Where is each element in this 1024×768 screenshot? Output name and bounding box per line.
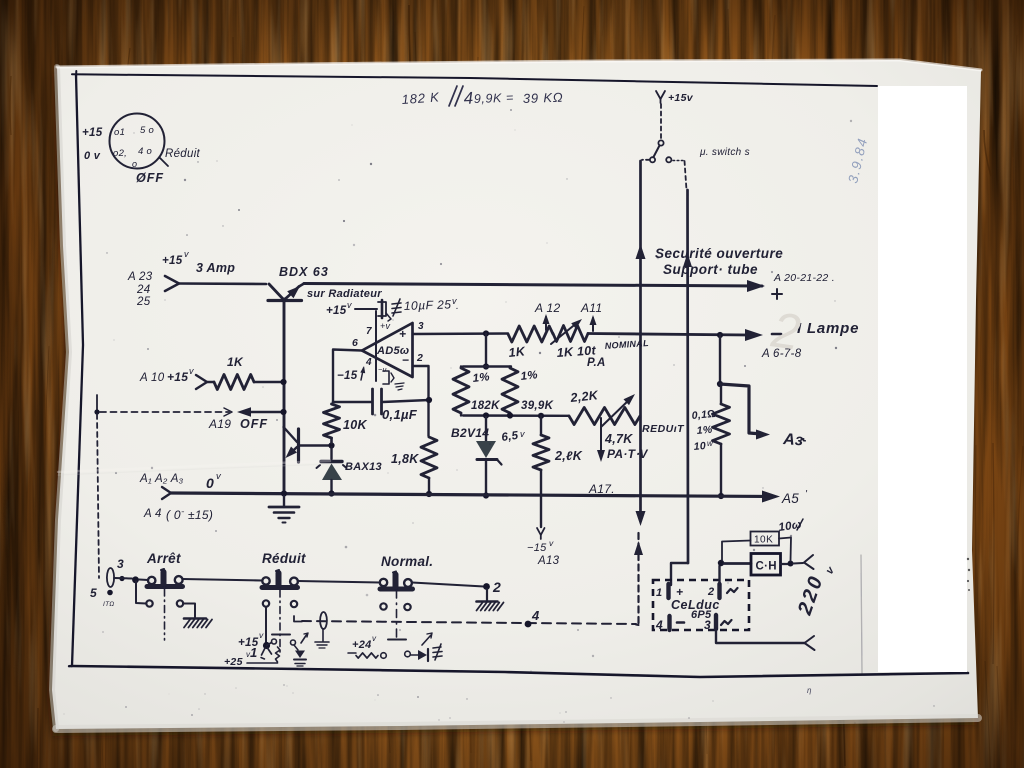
svg-text:2: 2 (492, 579, 501, 595)
svg-text:Réduit: Réduit (262, 551, 306, 566)
svg-text:A13: A13 (537, 555, 560, 567)
wire lamp to Arret switch (114, 577, 132, 580)
svg-text:o: o (132, 159, 137, 169)
svg-text:μ. switch s: μ. switch s (699, 147, 750, 158)
switch SW-Arret lower contacts (146, 600, 183, 606)
label p. switch 1 (699, 147, 750, 158)
svg-text:A17.: A17. (588, 482, 615, 496)
svg-text:o1: o1 (114, 127, 125, 138)
junction dot D2 / 0V rail (483, 492, 489, 498)
capacitor C2 0,1uF (333, 389, 429, 414)
svg-text:1%: 1% (472, 371, 490, 385)
wire divider tap down (483, 334, 489, 370)
svg-text:+25: +25 (224, 656, 243, 668)
label Reduit switch (262, 551, 306, 566)
switch SW-Normal lower contacts (380, 603, 410, 610)
svg-text:2: 2 (416, 352, 423, 364)
wire vertical net V1 from switch S1 (641, 160, 650, 517)
svg-text:v: v (347, 300, 352, 310)
svg-text:o2,: o2, (113, 148, 127, 159)
node A10 +15V (139, 366, 194, 384)
svg-text:v: v (184, 249, 189, 259)
wire 0V rail A5 (171, 493, 771, 497)
wire U1 pin6 output feedback (333, 350, 362, 403)
node label A13 (537, 555, 560, 567)
svg-text:+15: +15 (162, 255, 183, 267)
wire divider bottom rail (463, 414, 569, 417)
svg-text:4: 4 (655, 618, 663, 632)
ground at node 2 (477, 589, 504, 611)
svg-text:1,8K: 1,8K (391, 452, 419, 466)
svg-text:A 20-21-22 .: A 20-21-22 . (773, 272, 835, 284)
label Celduc (671, 598, 720, 612)
svg-text:+: + (399, 327, 406, 341)
svg-text:±15): ±15) (188, 508, 213, 522)
svg-text:39 KΩ: 39 KΩ (523, 90, 564, 106)
wire Arret to Reduit (183, 579, 263, 581)
terminal 1 of K1 (656, 584, 683, 599)
svg-text:4,7K: 4,7K (604, 432, 633, 446)
terminal 4 of K1 (655, 616, 684, 632)
label 6P5 (691, 609, 712, 621)
solid state relay K1 Celduc box (653, 580, 749, 630)
svg-text:BAX13: BAX13 (345, 461, 382, 473)
label node 4 (531, 608, 540, 623)
label 3 at lamp (117, 557, 124, 571)
label A4 (0V +/-15) (143, 503, 213, 522)
wiper diagonal arrow R9 (601, 394, 635, 427)
svg-text:10: 10 (693, 440, 706, 453)
wire +25V (224, 650, 278, 668)
lamp oval on node 4 line (320, 612, 327, 629)
wire C1 down through U1 pin 7 to pin 4 (375, 311, 377, 381)
svg-text:+v: +v (380, 321, 391, 331)
formula annotation 182K parallel 49,9K (401, 86, 564, 108)
wire U1 minus input from R3 node (413, 366, 429, 436)
label 0V at J1 (84, 150, 101, 162)
wire terminal 2 up (718, 566, 720, 584)
svg-text:1%: 1% (696, 424, 713, 437)
junction dot R1 / emitter rail (280, 379, 286, 385)
wire dashed from +15V to switch S1 (660, 104, 662, 139)
svg-text:Réduit: Réduit (165, 148, 201, 160)
wire Normal to node 2 (412, 583, 484, 587)
ground under lamp oval (315, 630, 329, 649)
svg-text:1K: 1K (227, 355, 244, 369)
wire Reduit lower left down (265, 607, 267, 642)
dash-dot under Reduit stem (279, 590, 281, 652)
svg-text:24: 24 (136, 284, 150, 296)
svg-text:0,1Ω: 0,1Ω (691, 408, 716, 422)
potentiometer R7 1K (508, 326, 553, 342)
junction dot A19 / collector (280, 409, 286, 415)
label 1% (R4) (472, 371, 490, 385)
svg-text:−ν: −ν (378, 365, 387, 374)
small arrowhead on A19 dashes (224, 408, 232, 416)
svg-text:−: − (402, 353, 409, 367)
arrowhead up on net V1 (636, 244, 646, 259)
switch S1 left contact (650, 157, 655, 162)
wire Reduit to Normal (298, 581, 381, 583)
label -15 at pin4 (337, 366, 365, 382)
svg-text:0: 0 (206, 475, 214, 491)
dash-dot line node 4 (302, 621, 636, 624)
svg-text:−15: −15 (527, 542, 547, 554)
dash-dot under Arret stem (164, 589, 166, 640)
wiper arrow A11 (590, 315, 597, 331)
svg-text:9,9K =: 9,9K = (474, 91, 515, 106)
svg-text:PA·T⋅V: PA·T⋅V (607, 447, 648, 461)
wiper arrow A12 (543, 314, 550, 330)
wire 10K left leg (722, 541, 751, 561)
svg-text:A 4: A 4 (143, 508, 162, 520)
resistor R11 10K box (751, 532, 780, 546)
pin 6 label (352, 337, 358, 349)
wire dashed A19 horizontal (100, 411, 229, 413)
svg-text:C·H: C·H (756, 561, 777, 573)
label 3 Amp (196, 261, 235, 275)
terminal 2 of K1 (707, 584, 738, 598)
label 0,1uF (C2) (382, 407, 418, 422)
label Arret (146, 551, 181, 566)
svg-text:v: v (520, 429, 525, 439)
wire lower contact to ground (183, 604, 195, 618)
svg-text:0 v: 0 v (84, 150, 101, 162)
wire divider top rail (463, 365, 511, 367)
svg-text:+15v: +15v (668, 92, 694, 104)
label B2V14 (D2) (451, 426, 489, 440)
junction dot rail / Q1 emitter (281, 490, 287, 496)
label A9 (782, 431, 807, 450)
corner dashed net V1 to node 4 (636, 624, 639, 627)
svg-text:A₁ A₂ A₃: A₁ A₂ A₃ (139, 473, 184, 485)
diode D1 BAX13 (317, 447, 347, 493)
svg-text:0,1µF: 0,1µF (382, 407, 418, 422)
label 0,1A 1% 10W (691, 408, 716, 453)
white masking rectangle (878, 86, 967, 672)
wire terminal 3 down to mains (716, 629, 805, 643)
wire main +15 rail to A20-21-22 arrow (304, 284, 762, 287)
label AD515 inside U1 (376, 327, 409, 374)
ground at SW-Arret (184, 619, 212, 628)
label 10uF 25V (404, 296, 459, 313)
wire I Lampe node down (717, 335, 723, 387)
svg-text:2,ℓK: 2,ℓK (554, 449, 583, 463)
connector fork -15V (537, 528, 545, 539)
label BAX13 (345, 461, 382, 473)
svg-text:v: v (259, 630, 264, 640)
svg-text:−15: −15 (337, 370, 358, 382)
label Support tube (663, 262, 758, 277)
svg-text:v: v (246, 650, 251, 659)
controller C-H box (751, 554, 781, 576)
resistor R1 1K horizontal (207, 375, 281, 390)
resistor R5 39,9K vertical (502, 367, 518, 416)
junction dot +15 relay node (263, 642, 270, 649)
svg-text:ØFF: ØFF (136, 171, 164, 185)
wire contact to Arret (139, 579, 148, 582)
svg-text:Securité ouverture: Securité ouverture (655, 246, 783, 261)
svg-text:1%: 1% (520, 369, 538, 383)
svg-text:3: 3 (117, 557, 124, 571)
wire R3 to 0V rail (426, 478, 432, 497)
pin 3 label (418, 321, 424, 332)
wire dashed A19 branch vertical (94, 395, 99, 578)
switch SW-Arret upper contacts (148, 576, 183, 584)
label C-H (756, 561, 777, 573)
speckles right of mask (967, 558, 970, 591)
svg-text:10K: 10K (343, 418, 368, 432)
svg-text:I Lampe: I Lampe (797, 320, 859, 337)
pin 4 label (365, 357, 372, 368)
svg-text:10K: 10K (754, 535, 773, 546)
junction dot C2 / pin2 branch (426, 397, 432, 403)
connector chevron A1 (162, 487, 171, 499)
label 1K (R7) (508, 344, 527, 360)
svg-text:ˍ: ˍ (181, 503, 185, 513)
label BDX 63 (279, 265, 329, 279)
svg-text:Support· tube: Support· tube (663, 262, 758, 277)
label 39,9K (R5) (521, 400, 554, 412)
svg-text:3: 3 (704, 618, 711, 632)
transistor Q2 (284, 427, 299, 462)
label A5 (781, 489, 808, 506)
label 5 (90, 586, 97, 600)
svg-text:3 Amp: 3 Amp (196, 261, 235, 275)
svg-text:4: 4 (531, 608, 540, 623)
contact circle at relay lamp (291, 640, 296, 645)
arrowhead I Lampe rail (745, 329, 763, 341)
label minus I Lampe (772, 333, 781, 336)
label 4,7K (604, 432, 633, 446)
small 3-mark arrow (301, 633, 308, 643)
label +24V (348, 634, 377, 653)
svg-text:182 K: 182 K (401, 89, 440, 107)
paper speckles (64, 109, 935, 723)
wire 10K right leg (779, 538, 791, 562)
label 1K (R1) (227, 355, 244, 369)
wire +15V to feedthrough capacitor C1 (355, 308, 377, 310)
arrowhead up on net V2 (683, 253, 692, 267)
relay legs marks (261, 648, 272, 659)
arrowhead down at bottom of net V1 (636, 511, 646, 526)
label A11 (580, 301, 602, 315)
svg-text:Normal.: Normal. (381, 554, 433, 569)
svg-text:A 23: A 23 (127, 271, 153, 283)
label A12 (534, 301, 560, 315)
thick wire to A9 arrow (720, 384, 762, 434)
svg-text:25: 25 (136, 296, 151, 308)
switch S1 pole contact (658, 140, 663, 145)
svg-text:1: 1 (656, 587, 662, 599)
resistor R6 2,2K vertical (533, 416, 549, 470)
svg-text:4: 4 (365, 357, 372, 368)
label plus sign A20 (772, 289, 782, 299)
label PA-TV (607, 447, 648, 461)
switch SW-Reduit lower contacts (263, 600, 297, 607)
label I Lampe (797, 320, 859, 337)
label 10K (R2) (343, 418, 368, 432)
wire U1 plus input to divider (413, 332, 508, 335)
svg-text:v: v (372, 634, 377, 643)
dash-dot under Normal stem (388, 590, 406, 640)
junction dot K1-2 / C-H (718, 560, 724, 566)
resistor squiggle +24 (356, 653, 386, 659)
svg-text:4 o: 4 o (138, 146, 152, 157)
svg-text:6: 6 (352, 337, 358, 349)
wire to C-H box (724, 562, 751, 565)
down arrow from R9 wiper (597, 418, 605, 462)
svg-text:4: 4 (463, 89, 474, 108)
svg-text:7: 7 (366, 326, 372, 337)
junction dot node 2 (483, 583, 490, 590)
label Reduit at J1 (165, 148, 201, 160)
small diode D3 vertical (294, 645, 306, 660)
label 220V (794, 564, 838, 618)
zener diode D2 (476, 417, 502, 494)
pin 2 label (416, 352, 423, 364)
ground at Q1 emitter (269, 496, 299, 523)
wiper diagonal on R8 (551, 319, 582, 344)
arrowhead A9 (756, 430, 770, 440)
wire A23 to BDX63 base (179, 282, 266, 285)
arrowhead A5 (762, 491, 780, 503)
junction dot lamp sense (717, 332, 723, 338)
label 2,2K (R9) (569, 388, 600, 405)
wire drop to lower contact (136, 581, 146, 604)
label A1 A2 A3 (139, 473, 184, 485)
svg-text:2: 2 (707, 586, 714, 598)
svg-text:+15: +15 (167, 370, 188, 384)
potentiometer R9 2,2K (569, 408, 640, 425)
indicator lamp oval (107, 568, 114, 587)
svg-text:1: 1 (250, 645, 258, 660)
svg-text:5: 5 (90, 586, 97, 600)
svg-text:BDX 63: BDX 63 (279, 265, 329, 279)
label Normal switch (381, 554, 433, 569)
relay lever and contact (267, 639, 277, 646)
label 10K in box (754, 535, 773, 546)
pin dot 5 (103, 590, 115, 608)
svg-text:.: . (456, 301, 459, 312)
pin 7 label (366, 321, 391, 337)
arrowhead A19 pointing left (237, 407, 284, 417)
schematic frame border (69, 71, 968, 677)
switch S1 lever (654, 146, 660, 158)
svg-text:P.A: P.A (587, 357, 606, 369)
switch SW-Reduit button (262, 570, 298, 588)
label +15V 1 (238, 630, 264, 660)
wire Q2 base to node (300, 444, 329, 446)
resistor R3 1,8K vertical (421, 437, 437, 478)
label 10W (778, 519, 803, 534)
label OFF at J1 (136, 171, 164, 185)
label -15V (527, 538, 554, 554)
svg-text:182K: 182K (471, 400, 500, 412)
svg-text:3: 3 (418, 321, 424, 332)
label A20-21-22 (773, 272, 835, 284)
wire R6 down to -15V (540, 470, 542, 527)
svg-text:+15: +15 (326, 305, 347, 317)
junction dot lamp wire (119, 576, 139, 583)
arrow mark at lamp test (422, 633, 432, 645)
svg-text:w: w (707, 439, 714, 448)
svg-text:A11: A11 (580, 301, 602, 315)
arrowhead A20 rail (747, 280, 765, 292)
label NOMINAL (604, 338, 649, 351)
svg-text:A 12: A 12 (534, 301, 560, 315)
svg-text:( 0: ( 0 (166, 508, 181, 522)
label 182K (R4) (471, 400, 500, 412)
terminal 3 of K1 (704, 615, 732, 632)
svg-text:sur Radiateur: sur Radiateur (307, 288, 382, 300)
label 1,8K (R3) (391, 452, 419, 466)
junction dot U1 output / divider (483, 330, 489, 336)
wire dashed continuation of net V1 (637, 533, 639, 625)
small pen mark below frame (807, 686, 812, 695)
svg-text:B2V14: B2V14 (451, 426, 489, 440)
svg-text:IΤΩ: IΤΩ (103, 601, 115, 608)
label 0V (206, 471, 222, 491)
junction dot C-H right (788, 561, 794, 567)
svg-text:v: v (189, 366, 194, 376)
date annotation 3.9.84 (845, 136, 870, 185)
balance pins mark at U1 (383, 371, 404, 390)
mini ground at D3 (295, 664, 305, 669)
capacitor tick on Reduit stem line (272, 634, 290, 636)
op-amp U1 AD515 triangle (362, 323, 413, 377)
svg-text:A 10: A 10 (139, 372, 165, 384)
svg-text:6,5: 6,5 (501, 430, 520, 444)
label +15V at U1 pin7 (326, 300, 352, 317)
resistor R2 10K vertical (324, 404, 340, 443)
paper crease highlight (58, 461, 330, 475)
svg-text:+15: +15 (82, 127, 103, 139)
wire C-H to mains (781, 563, 789, 565)
svg-text:+: + (676, 585, 683, 599)
wire vertical net V2 from switch S1 right contact (685, 161, 689, 563)
switch SW-Reduit upper contacts (262, 577, 298, 585)
potentiometer R8 1K 10t (553, 326, 588, 342)
junction dot R10 / 0V rail (718, 493, 724, 499)
label REDUIT (642, 423, 685, 435)
switch SW-Arret button (147, 569, 183, 587)
svg-text:10µF 25: 10µF 25 (404, 297, 452, 313)
junction dot D1 / 0V rail (328, 490, 334, 496)
label 2,2K (R6) (554, 449, 583, 463)
label 1% (R5) (520, 369, 538, 383)
switch SW-Normal button (380, 572, 413, 590)
wire R8 to I Lampe arrow (588, 334, 749, 336)
wire jog from net V2 to Celduc terminal 1 (671, 563, 688, 585)
connector chevron A10 (196, 375, 207, 389)
switch S1 right contact (666, 157, 683, 162)
svg-text:v: v (549, 538, 554, 548)
wire to mains chevron (793, 562, 803, 565)
svg-text:39,9K: 39,9K (521, 400, 554, 412)
label Y +15V (656, 91, 694, 104)
svg-text:+24: +24 (352, 639, 372, 651)
resistor R10 0,1 ohm (713, 386, 730, 495)
label Securite ouverture (655, 246, 783, 261)
connector J1 pins (113, 125, 154, 169)
junction dot node 4 (525, 621, 532, 628)
junction dots bottom rail (483, 412, 544, 419)
svg-text:Arrêt: Arrêt (146, 551, 181, 566)
connector J1 outline (110, 114, 169, 169)
svg-text:REDUıT: REDUıT (642, 423, 685, 435)
label A19 OFF (208, 417, 268, 431)
